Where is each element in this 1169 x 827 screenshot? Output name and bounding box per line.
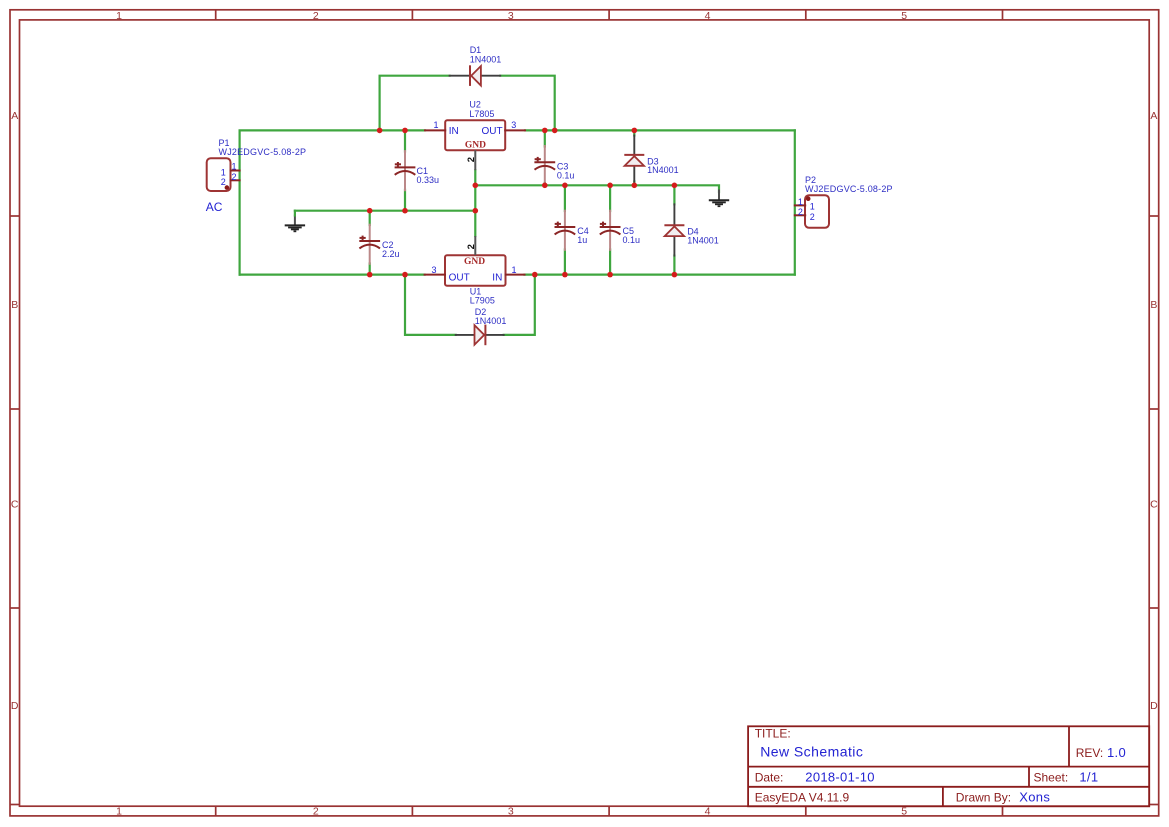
svg-text:1N4001: 1N4001 <box>475 316 507 326</box>
junction C4 / bottom bus <box>562 272 568 278</box>
title block DrawnBy divider <box>942 787 944 807</box>
wire C5 column lower <box>609 250 611 275</box>
left ruler tick A/B <box>10 215 20 217</box>
svg-text:New Schematic: New Schematic <box>760 744 863 760</box>
right ruler tick A/B <box>1149 215 1159 217</box>
svg-text:B: B <box>1150 299 1157 311</box>
svg-text:1: 1 <box>221 167 226 177</box>
svg-text:L7905: L7905 <box>470 295 495 305</box>
junction D2-left / bottom bus <box>402 272 408 278</box>
svg-text:Drawn By:: Drawn By: <box>956 790 1011 804</box>
junction D4 / bottom bus <box>672 272 678 278</box>
junction dots top bus <box>377 128 637 134</box>
svg-text:1: 1 <box>810 201 815 211</box>
svg-text:1: 1 <box>231 161 236 171</box>
svg-text:D: D <box>1150 700 1158 712</box>
bottom ruler tick 2 <box>411 806 413 816</box>
wire D4 column upper stub <box>673 185 675 204</box>
svg-text:C: C <box>11 499 19 511</box>
svg-text:A: A <box>1150 110 1157 122</box>
svg-text:AC: AC <box>206 200 223 214</box>
svg-text:3: 3 <box>431 265 436 275</box>
junction C5 / bottom bus <box>607 272 613 278</box>
left ruler tick C/D <box>10 607 20 609</box>
svg-text:IN: IN <box>449 126 459 137</box>
wire D1 bypass loop left <box>380 76 450 131</box>
junction C4 / ground bus <box>562 183 568 189</box>
wire C3 column upper <box>544 130 546 146</box>
junction dots ground bus <box>473 183 678 189</box>
capacitor C4 <box>555 211 576 250</box>
svg-text:3: 3 <box>511 120 516 130</box>
svg-text:1N4001: 1N4001 <box>647 165 679 175</box>
svg-text:EasyEDA V4.11.9: EasyEDA V4.11.9 <box>755 790 850 804</box>
wire D2 bypass loop left <box>405 275 456 335</box>
junction GND column / ground bus <box>473 183 479 189</box>
bottom ruler tick 4 <box>805 806 807 816</box>
top ruler tick 2 <box>411 10 413 20</box>
wire D3 column upper stub <box>633 130 635 135</box>
title block Sheet divider <box>1028 767 1030 787</box>
junction C3 / top bus <box>542 128 548 134</box>
svg-text:1: 1 <box>511 265 516 275</box>
svg-text:GND: GND <box>464 257 485 267</box>
wire mid-left ground bus y211 <box>295 210 475 212</box>
wire C2 column lower <box>369 264 371 275</box>
title block row divider 2 <box>748 786 1149 788</box>
svg-text:Sheet:: Sheet: <box>1034 771 1069 785</box>
svg-text:2.2u: 2.2u <box>382 249 400 259</box>
junction D2-right / bottom bus <box>532 272 538 278</box>
left ruler tick D/end <box>10 804 20 806</box>
connector P1 <box>207 158 240 191</box>
bottom ruler tick 1 <box>215 806 217 816</box>
wire C5 column upper <box>609 185 611 211</box>
wire stub to left ground <box>294 211 296 216</box>
svg-text:3: 3 <box>508 10 514 22</box>
junction GND column / mid bus <box>473 208 479 214</box>
junction D1-left / top bus <box>377 128 383 134</box>
svg-text:WJ2EDGVC-5.08-2P: WJ2EDGVC-5.08-2P <box>219 147 307 157</box>
svg-text:OUT: OUT <box>481 126 502 137</box>
capacitor C2 <box>359 225 380 264</box>
svg-text:4: 4 <box>705 806 711 818</box>
right ruler tick C/D <box>1149 607 1159 609</box>
wire D2 bypass loop right <box>504 275 535 335</box>
capacitor C3 <box>534 146 555 185</box>
junction C2 / mid bus <box>367 208 373 214</box>
regulator U2 L7805 <box>425 120 525 170</box>
svg-text:2: 2 <box>231 172 236 182</box>
junction C2 / bottom bus <box>367 272 373 278</box>
top ruler tick 3 <box>608 10 610 20</box>
junction D3 / top bus <box>632 128 638 134</box>
svg-text:4: 4 <box>705 10 711 22</box>
svg-text:1: 1 <box>798 197 803 207</box>
ground symbol left <box>285 215 305 232</box>
junction D3 / ground bus <box>632 183 638 189</box>
capacitor C1 <box>395 151 416 190</box>
svg-text:3: 3 <box>508 806 514 818</box>
wire top bus left segment <box>240 130 425 274</box>
svg-text:A: A <box>11 110 18 122</box>
svg-text:1: 1 <box>433 120 438 130</box>
svg-text:2: 2 <box>466 244 477 249</box>
svg-text:1N4001: 1N4001 <box>470 54 502 64</box>
junction C5 / ground bus <box>607 183 613 189</box>
svg-text:1: 1 <box>116 806 122 818</box>
svg-text:1N4001: 1N4001 <box>687 235 719 245</box>
svg-text:Xons: Xons <box>1019 789 1050 804</box>
wire bottom bus left segment <box>240 274 425 276</box>
svg-text:L7805: L7805 <box>469 109 494 119</box>
svg-text:2: 2 <box>466 157 477 162</box>
right ruler tick B/C <box>1149 408 1159 410</box>
left ruler tick B/C <box>10 408 20 410</box>
svg-text:1/1: 1/1 <box>1079 770 1098 785</box>
junction C1 / mid bus <box>402 208 408 214</box>
title block outline <box>748 726 1149 806</box>
wire top bus right segment <box>525 129 795 131</box>
wire C4 column lower <box>564 250 566 275</box>
title block row divider 1 <box>748 766 1149 768</box>
right ruler tick D/end <box>1149 804 1159 806</box>
capacitor C5 <box>600 211 621 250</box>
junction C3 / ground bus <box>542 183 548 189</box>
ground symbol right <box>709 190 729 207</box>
junction dots bottom bus <box>367 272 677 278</box>
wire C1 column lower <box>404 190 406 211</box>
title block REV divider <box>1068 726 1070 766</box>
junction C1 / top bus <box>402 128 408 134</box>
top ruler tick 1 <box>215 10 217 20</box>
wire D3 column lower stub <box>633 182 635 186</box>
regulator U1 L7905 <box>425 236 525 286</box>
svg-text:D: D <box>11 700 19 712</box>
junction D4 / ground bus <box>672 183 678 189</box>
wire C4 column upper <box>564 185 566 211</box>
junction D1-right / top bus <box>552 128 558 134</box>
diode D2 <box>456 325 504 346</box>
svg-text:Date:: Date: <box>755 771 784 785</box>
svg-text:2: 2 <box>313 10 319 22</box>
top ruler tick 5 <box>1002 10 1004 20</box>
top ruler tick 4 <box>805 10 807 20</box>
svg-text:OUT: OUT <box>449 273 470 284</box>
wire C2 column upper <box>369 211 371 225</box>
bottom ruler tick 5 <box>1002 806 1004 816</box>
svg-text:2018-01-10: 2018-01-10 <box>805 770 875 785</box>
svg-text:IN: IN <box>492 273 502 284</box>
svg-text:1.0: 1.0 <box>1107 745 1126 760</box>
wire regulator GND column <box>474 170 476 236</box>
wire ground bus y185 <box>475 185 719 192</box>
svg-text:5: 5 <box>901 10 907 22</box>
svg-text:2: 2 <box>798 207 803 217</box>
svg-text:1u: 1u <box>577 235 587 245</box>
svg-text:GND: GND <box>465 141 486 151</box>
svg-text:0.1u: 0.1u <box>557 170 575 180</box>
svg-text:U2: U2 <box>469 100 481 110</box>
wire right vertical to P2 <box>794 130 796 274</box>
svg-text:1: 1 <box>116 10 122 22</box>
bottom ruler tick 3 <box>608 806 610 816</box>
svg-text:0.1u: 0.1u <box>623 235 641 245</box>
wire C1 column upper <box>404 130 406 151</box>
svg-text:WJ2EDGVC-5.08-2P: WJ2EDGVC-5.08-2P <box>805 184 893 194</box>
svg-text:TITLE:: TITLE: <box>755 727 791 741</box>
svg-text:5: 5 <box>901 806 907 818</box>
diode D1 <box>450 65 501 86</box>
svg-text:B: B <box>11 299 18 311</box>
svg-text:0.33u: 0.33u <box>417 175 440 185</box>
svg-text:2: 2 <box>221 177 226 187</box>
wire D4 column lower stub <box>673 256 675 275</box>
wire D1 bypass loop right <box>500 76 555 131</box>
diode D3 <box>624 136 644 182</box>
wire C3 column lower <box>544 183 546 185</box>
svg-text:REV:: REV: <box>1076 746 1104 760</box>
svg-text:2: 2 <box>313 806 319 818</box>
svg-text:C: C <box>1150 499 1158 511</box>
connector P2 <box>795 195 829 228</box>
svg-text:2: 2 <box>810 212 815 222</box>
junction dots mid-left bus <box>367 208 478 214</box>
diode D4 <box>664 204 684 255</box>
wire bottom bus right segment <box>525 274 795 276</box>
